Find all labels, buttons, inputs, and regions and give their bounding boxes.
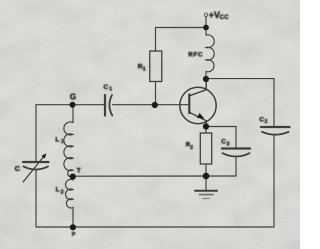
svg-text:+V: +V xyxy=(209,10,220,20)
svg-text:T: T xyxy=(77,168,81,175)
svg-text:CC: CC xyxy=(220,15,230,21)
svg-text:C: C xyxy=(15,164,21,173)
svg-text:1: 1 xyxy=(143,66,146,72)
svg-text:G: G xyxy=(70,92,76,101)
svg-text:C: C xyxy=(259,116,264,123)
svg-text:C: C xyxy=(221,138,226,145)
svg-text:3: 3 xyxy=(227,141,230,147)
svg-text:2: 2 xyxy=(190,145,193,151)
svg-text:2: 2 xyxy=(265,119,268,125)
svg-text:1: 1 xyxy=(109,86,112,92)
svg-text:L: L xyxy=(55,136,59,143)
svg-text:P: P xyxy=(72,232,76,238)
svg-text:L: L xyxy=(56,187,60,194)
svg-text:1: 1 xyxy=(61,139,64,145)
svg-text:2: 2 xyxy=(61,189,64,195)
svg-text:RFC: RFC xyxy=(188,51,203,58)
svg-text:C: C xyxy=(104,84,109,91)
